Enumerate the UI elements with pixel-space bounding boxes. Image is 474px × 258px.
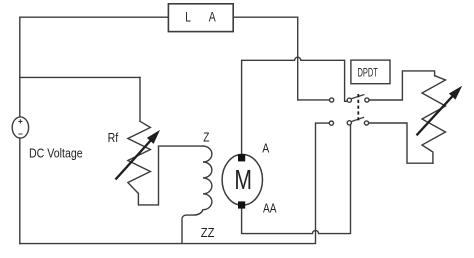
brush A (top) bbox=[238, 154, 245, 161]
svg-text:AA: AA bbox=[263, 201, 277, 216]
switch contact bottom-middle (pole 2) bbox=[347, 121, 351, 125]
switch contact bottom-right bbox=[364, 121, 368, 125]
DPDT label box bbox=[351, 60, 390, 84]
wiper arrow of right rheostat bbox=[417, 87, 462, 135]
ammeter box U1 bbox=[168, 4, 233, 32]
wire box right to switch feed corner bbox=[233, 16, 298, 18]
motor armature wire top (A) with hop over feed wire bbox=[242, 57, 348, 154]
svg-text:DPDT: DPDT bbox=[358, 65, 379, 79]
switch contact top-right bbox=[365, 98, 369, 102]
motor M bbox=[222, 154, 262, 205]
wire top-left horizontal from source to ammeter box bbox=[20, 16, 169, 18]
wire bottom-right throw to rheostat bottom bbox=[369, 123, 433, 163]
svg-text:A: A bbox=[262, 141, 269, 156]
resistor rheostat right zigzag bbox=[422, 76, 446, 164]
wire bottom bus to switch bottom-left contact bbox=[20, 123, 330, 244]
motor armature wire bottom (AA) with hop over bus riser bbox=[242, 125, 351, 234]
switch contact top-middle (pole 1) bbox=[347, 98, 351, 102]
svg-text:A: A bbox=[209, 8, 216, 24]
svg-text:ZZ: ZZ bbox=[201, 225, 215, 240]
DPDT mechanical link (dashed) bbox=[357, 94, 359, 121]
svg-text:Rf: Rf bbox=[108, 130, 119, 145]
wire left vertical (source top lead) bbox=[19, 17, 21, 117]
switch blade pole 2 bbox=[351, 117, 364, 121]
battery DC source bbox=[12, 117, 28, 138]
wire top-right throw to rheostat top bbox=[369, 71, 435, 100]
wire Rf top lead bbox=[139, 77, 141, 121]
wire left vertical (source bottom lead to bus) bbox=[19, 138, 21, 244]
svg-text:Z: Z bbox=[203, 129, 209, 144]
svg-text:DC Voltage: DC Voltage bbox=[29, 145, 83, 160]
brush AA (bottom) bbox=[238, 201, 245, 208]
wire Rf bottom lead to coil top bbox=[138, 146, 203, 205]
inductor Z field coil bbox=[182, 146, 212, 243]
resistor Rf zigzag bbox=[128, 121, 150, 193]
switch blade pole 1 bbox=[351, 95, 364, 99]
wire field branch horizontal bbox=[20, 76, 140, 78]
switch contact top-left bbox=[330, 98, 334, 102]
switch contact bottom-left bbox=[329, 121, 333, 125]
svg-text:M: M bbox=[234, 164, 252, 195]
wire horizontal into top-left contact bbox=[298, 99, 330, 101]
svg-text:L: L bbox=[185, 8, 191, 24]
wire vertical feed from box down to switch left contact bbox=[297, 17, 299, 100]
wiper arrow of Rf bbox=[116, 131, 159, 179]
